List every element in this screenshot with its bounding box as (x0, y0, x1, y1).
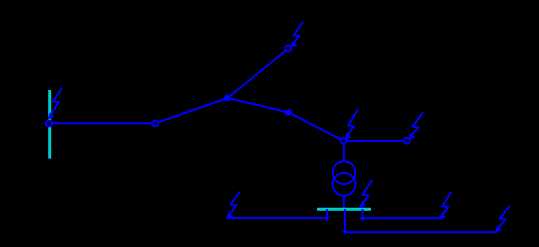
busbar B2 (bottom horizontal, cyan) (317, 208, 371, 211)
wire W8 transformer to busbar B2 (343, 196, 345, 209)
wire W3 junction J1 to node N3 (228, 49, 289, 99)
stub S1 from busbar B2 down (326, 209, 328, 219)
wire W9 feeder line left (228, 217, 328, 219)
node N4 (341, 138, 347, 144)
wire W11 from busbar B2 down (long) (344, 209, 346, 232)
junction J1 (224, 95, 231, 102)
node N1 on busbar B1 (46, 121, 52, 127)
wire W1 bus1 to node N2 (50, 122, 155, 124)
wire W7 node N4 down to transformer (343, 141, 345, 162)
foot arrowhead W11 (342, 231, 348, 235)
wire W12 bottom feeder line (345, 231, 497, 233)
busbar B1 (left vertical, cyan) (48, 90, 51, 159)
infeed arrow A7 into wire W9 left end (226, 192, 240, 220)
infeed arrow A9 into wire W12 right end (495, 206, 510, 232)
infeed arrow A8 into wire W10 right end (439, 192, 451, 220)
junction J2 (285, 109, 292, 116)
wire W10 feeder line right (363, 217, 442, 219)
wire W5 junction J2 to node N4 (289, 113, 344, 141)
node N3 (285, 46, 291, 52)
wire W2 node N2 to junction J1 (155, 98, 228, 124)
infeed arrow A3 into node N3 (290, 22, 303, 48)
foot arrowhead S2 (360, 217, 366, 221)
node N5 (404, 138, 410, 144)
infeed arrow A6 into busbar B2 (359, 180, 372, 208)
infeed arrow A5 into node N5 (408, 113, 423, 140)
node N2 (152, 121, 158, 127)
infeed arrow A4 into node N4 (344, 110, 358, 140)
foot arrowhead S1 (324, 217, 330, 221)
infeed arrow A1 into node N1 (48, 88, 62, 119)
wire W6 node N4 to node N5 (344, 140, 407, 142)
wire W4 junction J1 to junction J2 (228, 98, 289, 113)
transformer T1 (333, 161, 356, 195)
stub S2 from busbar B2 down (362, 209, 364, 219)
